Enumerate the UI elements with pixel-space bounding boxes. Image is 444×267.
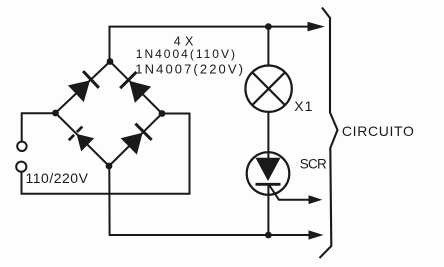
wire bridge arm bottom-right: [109, 114, 162, 167]
diode D2 (top-right arm): [120, 72, 151, 103]
arrow top output: [308, 22, 325, 32]
wire SCR gate lead: [269, 185, 310, 200]
brace CIRCUITO: [320, 8, 338, 259]
node bridge AC right: [159, 110, 166, 117]
diode D4 (bottom-right arm): [121, 124, 152, 155]
svg-text:X1: X1: [294, 98, 313, 114]
lamp X1: [245, 66, 291, 112]
wire bridge arm top-left: [56, 62, 111, 114]
node bridge - (bottom): [106, 163, 113, 170]
wire lamp to SCR: [267, 112, 269, 158]
svg-text:CIRCUITO: CIRCUITO: [342, 123, 415, 139]
svg-text:110/220V: 110/220V: [26, 170, 89, 186]
wire SCR cathode down to bottom junction: [267, 184, 269, 235]
diode D1 (top-left arm): [68, 71, 99, 102]
node bridge + (top): [107, 58, 114, 65]
wire bottom output to arrow: [110, 234, 311, 236]
node bottom rail junction: [265, 232, 272, 239]
arrow gate output: [309, 195, 323, 204]
svg-text:1N4004(110V): 1N4004(110V): [136, 47, 237, 61]
wire AC left lead: left node to terminal: [22, 113, 56, 141]
wire lamp chain vertical: [267, 27, 269, 66]
wire top rail from bridge + node to arrow: [110, 27, 312, 62]
svg-text:SCR: SCR: [300, 156, 327, 171]
svg-text:1N4007(220V): 1N4007(220V): [135, 62, 245, 77]
SCR: [247, 152, 290, 195]
diode D3 (bottom-left arm): [69, 127, 94, 152]
terminal lower (AC plug): [16, 162, 26, 172]
wire AC right lead: right node around to bottom return: [162, 114, 190, 194]
wire lower terminal to bottom return: [22, 172, 190, 194]
wire bridge - node down: [108, 166, 110, 235]
terminal upper (AC plug): [17, 142, 26, 151]
node bridge AC left: [52, 110, 59, 117]
arrow bottom output: [309, 230, 324, 239]
node top rail junction: [265, 23, 272, 30]
wire bridge arm bottom-left: [56, 113, 110, 166]
wire bridge arm top-right: [110, 62, 162, 114]
